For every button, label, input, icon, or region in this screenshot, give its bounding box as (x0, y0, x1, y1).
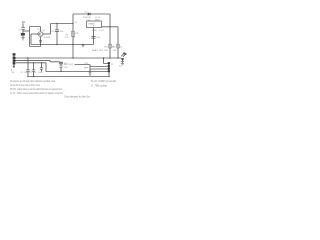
node collector Q1 (42, 33, 43, 34)
node G (109, 26, 110, 27)
wire regulator output (102, 27, 119, 58)
svg-text:Q1: Q1 (42, 30, 46, 32)
connector J1 body (13, 53, 16, 67)
svg-text:J1, J2 : 3.5mm stereo jack soc: J1, J2 : 3.5mm stereo jack socket and 4 … (10, 91, 63, 95)
node L (117, 57, 118, 58)
wire cap C4 drop (33, 63, 35, 77)
node base Q1 (37, 33, 38, 34)
capacitor C4 plates (32, 70, 36, 71)
node H (27, 57, 28, 58)
wire jack pin2 (16, 60, 60, 61)
svg-text:7805: 7805 (95, 20, 101, 22)
oscillator Q1 circle (38, 32, 43, 37)
wire to header pin1 (104, 58, 108, 64)
ground mic (21, 38, 25, 40)
svg-text:LM7805: LM7805 (88, 24, 95, 26)
svg-text:D1, D2 : 1N4007 and red LED: D1, D2 : 1N4007 and red LED (91, 79, 116, 83)
svg-text:+: + (89, 38, 91, 40)
svg-text:Circuit designed by John Doe: Circuit designed by John Doe (64, 94, 90, 98)
wire ground bus left (31, 34, 94, 45)
svg-text:OUT: OUT (84, 63, 89, 65)
LED D2 arrows (121, 53, 126, 57)
svg-text:BC548: BC548 (44, 37, 51, 39)
svg-text:10n: 10n (24, 72, 28, 74)
ground stub at bus x=83 (82, 45, 85, 47)
svg-text:C1: C1 (18, 29, 22, 31)
svg-text:4.7k: 4.7k (64, 37, 69, 39)
capacitor C2 plates (55, 30, 59, 32)
regulator U1 box (87, 21, 102, 28)
node J (103, 57, 104, 58)
wire vertical from top rail at x=73 (72, 14, 74, 58)
ground symbol at x=90 (89, 73, 92, 76)
component labels (10, 11, 126, 74)
capacitor on feedback drop (39, 41, 42, 42)
svg-text:10n: 10n (60, 31, 64, 33)
svg-text:330: 330 (104, 50, 108, 52)
notes text block (10, 79, 116, 99)
svg-text:U1 : 7805 regulator: U1 : 7805 regulator (91, 83, 107, 87)
wire cap C2 branch (56, 24, 58, 45)
wire mic bottom lead (22, 36, 24, 38)
node F (40, 44, 41, 45)
node P (60, 71, 61, 72)
svg-text:330: 330 (113, 50, 117, 52)
node K (109, 57, 110, 58)
LED D2 triangle (121, 58, 124, 61)
wire mic top lead (22, 23, 24, 33)
wire oscillator output (43, 33, 51, 35)
wire cap stack C6 (60, 62, 62, 72)
svg-text:9V: 9V (75, 22, 78, 24)
svg-text:GND: GND (92, 30, 97, 32)
svg-text:OUT: OUT (99, 30, 104, 32)
capacitor C1 mic coupling plates (21, 28, 25, 30)
node Q (33, 76, 34, 77)
resistor R6 box on x=118 (117, 44, 120, 48)
diode D1 on top rail (88, 13, 91, 15)
svg-text:IN: IN (12, 72, 15, 74)
wire feedback loop (30, 27, 41, 47)
transistor Q1 internal marks (40, 32, 42, 35)
svg-text:C8: C8 (37, 29, 39, 31)
node I (72, 57, 73, 58)
connector J2 body (108, 62, 110, 72)
svg-text:10k: 10k (75, 33, 79, 35)
node C (56, 44, 57, 45)
junction dots (27, 23, 119, 77)
node M (33, 62, 34, 63)
svg-text:R6: R6 (113, 47, 117, 49)
ground LED (121, 64, 124, 65)
wire to header pin2 (75, 65, 108, 72)
wire cap C7 drop (41, 63, 43, 72)
svg-text:10u: 10u (33, 72, 37, 74)
capacitor C7 plates (40, 68, 43, 69)
U1 pin mark (93, 24, 94, 27)
wire jack pin1 long (16, 57, 122, 59)
wire cap C3 drop (27, 58, 29, 77)
wire to header pin3 (90, 68, 108, 70)
svg-text:C2: C2 (52, 31, 56, 33)
wire regulator ground drop (93, 28, 95, 45)
svg-text:J2: J2 (111, 64, 114, 66)
capacitor C3 plates (26, 70, 30, 71)
wire ground post x=90 (89, 70, 91, 73)
wire vertical from top rail at x=110 (109, 14, 111, 58)
node O (89, 71, 90, 72)
wire jack pin3 ground (16, 63, 47, 72)
wire ground rail (27, 76, 110, 78)
node E (82, 44, 83, 45)
LED D2 cathode bar (121, 61, 124, 63)
svg-text:GND: GND (38, 72, 43, 74)
svg-text:10u: 10u (64, 67, 68, 69)
capacitor C6 polarity marks (59, 66, 62, 67)
resistor R1 box on x=73 (72, 31, 75, 36)
resistor R5 box on x=110 (109, 44, 112, 48)
svg-text:BAT 9V: BAT 9V (92, 49, 103, 52)
capacitor C5 plates on drop x=93.5 (91, 37, 95, 39)
wire LED stub (122, 62, 124, 64)
node A (56, 23, 57, 24)
node B (72, 23, 73, 24)
svg-text:D2: D2 (119, 65, 123, 67)
svg-text:D1: D1 (85, 11, 89, 13)
svg-text:1: 1 (125, 58, 126, 60)
svg-text:R1: R1 (66, 34, 70, 36)
wire mid horizontal y=23.5 (51, 23, 74, 25)
svg-text:R5: R5 (105, 47, 109, 49)
svg-text:1k: 1k (120, 47, 122, 49)
wire riser x=50.5 (50, 24, 52, 35)
wire oscillator input (31, 33, 38, 35)
wire header ground stub (108, 72, 110, 76)
wire top rail (73, 13, 110, 15)
microphone MIC1 body (21, 33, 25, 36)
svg-text:10u: 10u (96, 37, 100, 39)
node N (41, 62, 42, 63)
svg-text:M1: M1 (22, 21, 26, 24)
svg-text:R2: R2 (73, 37, 77, 39)
capacitor C6 plates (59, 62, 63, 64)
node D (72, 44, 73, 45)
wire mic stub (23, 30, 30, 32)
wire bottom ground run (46, 71, 108, 73)
svg-text:REF: REF (84, 67, 89, 69)
